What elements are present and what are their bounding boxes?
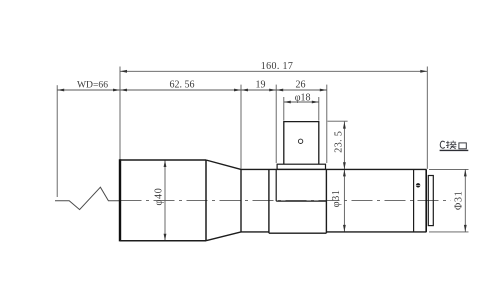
screw hole on top port bbox=[298, 139, 302, 143]
rear end face bbox=[425, 169, 427, 232]
extension line at x=120 (lens front) bbox=[119, 67, 121, 160]
svg-text:160. 17: 160. 17 bbox=[261, 61, 293, 72]
svg-text:φ40: φ40 bbox=[153, 188, 164, 206]
extension line at x=57 (object plane) bbox=[56, 85, 58, 197]
dimension WD=66 bbox=[57, 89, 120, 91]
taper cone bbox=[206, 160, 241, 241]
block inner edge bbox=[276, 169, 326, 201]
object plane break line (zigzag) bbox=[55, 187, 120, 209]
dimension phi40 bbox=[164, 160, 166, 241]
top port flange plate bbox=[277, 164, 325, 169]
dimension 23.5 bbox=[343, 122, 345, 170]
rear joint ring bbox=[413, 169, 415, 232]
hanzi KOU (口) bbox=[459, 143, 466, 149]
hanzi JIE (接) strokes bbox=[446, 141, 457, 149]
dimension 26 bbox=[276, 89, 327, 91]
centerline (optical axis) bbox=[121, 200, 451, 202]
dimension phi18 extension lines bbox=[284, 97, 319, 121]
dimension phi31 (mid tube) bbox=[343, 169, 345, 232]
label C-mount: letter C bbox=[440, 141, 444, 148]
dimension 160.17 bbox=[120, 70, 427, 72]
svg-text:WD=66: WD=66 bbox=[77, 80, 108, 91]
svg-text:19: 19 bbox=[256, 80, 266, 91]
mid/rear tube outline bbox=[241, 169, 427, 232]
svg-text:62. 56: 62. 56 bbox=[170, 80, 195, 91]
set screw bbox=[416, 183, 420, 187]
svg-text:26: 26 bbox=[296, 80, 306, 91]
svg-text:23. 5: 23. 5 bbox=[333, 131, 344, 153]
dimension phi31 (C-mount) extension lines bbox=[429, 169, 469, 232]
dimension 23.5 top extension bbox=[328, 120, 348, 122]
top port tube (phi18 box) bbox=[284, 122, 319, 165]
front barrel outline bbox=[120, 160, 206, 241]
svg-text:Φ31: Φ31 bbox=[454, 191, 465, 210]
dimension phi18 bbox=[284, 101, 319, 103]
extension line at x=427.3 (rear end, to C-mount) bbox=[426, 67, 428, 169]
front lens face (thick) bbox=[119, 159, 121, 241]
extension line at x=241 (front barrel end) bbox=[240, 85, 242, 169]
extension line at x=276 (block left) bbox=[275, 85, 277, 163]
svg-text:φ18: φ18 bbox=[295, 93, 311, 104]
svg-text:φ31: φ31 bbox=[331, 189, 342, 207]
dimension phi31 (C-mount) bbox=[464, 169, 466, 232]
dimension 62.56 bbox=[120, 89, 241, 91]
dimension 19 bbox=[241, 89, 276, 91]
C-mount thread ring bbox=[428, 176, 433, 226]
illuminator block section bbox=[269, 169, 327, 233]
label underline bbox=[440, 149, 469, 151]
extension line at x=326.8 (block right) bbox=[326, 85, 328, 163]
